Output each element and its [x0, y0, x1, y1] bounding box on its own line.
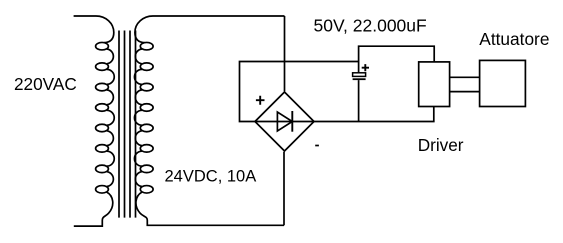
svg-text:24VDC, 10A: 24VDC, 10A: [165, 167, 257, 185]
transformer T1 secondary winding: [134, 16, 284, 225]
Attuatore box: [480, 60, 526, 106]
svg-text:220VAC: 220VAC: [14, 74, 77, 94]
transformer T1 core: [118, 31, 120, 218]
bridge rectifier D1 diamond: [255, 92, 314, 151]
capacitor C1 positive plate: [353, 73, 366, 77]
wire secondary bottom to bridge AC input: [283, 152, 285, 226]
plus sign at capacitor: [362, 64, 369, 71]
transformer T1 primary winding: [74, 16, 115, 226]
wire - output: through bridge (diode line) to Driver input -: [255, 107, 434, 122]
Driver box: [419, 62, 450, 107]
capacitor C1 top lead: [358, 62, 360, 73]
capacitor C1 negative plate: [353, 78, 366, 80]
wire + output: bridge left vertex, up, right to capacitor node: [240, 62, 359, 122]
plus sign at bridge + output: [256, 96, 265, 105]
svg-text:Driver: Driver: [418, 135, 464, 155]
svg-text:Attuatore: Attuatore: [479, 29, 549, 49]
capacitor C1 bottom lead: [358, 80, 360, 121]
diode cathode bar: [291, 111, 293, 132]
minus sign at bridge - output: [315, 145, 319, 147]
bus wire Driver to Attuatore lower: [450, 91, 480, 93]
svg-text:50V, 22.000uF: 50V, 22.000uF: [314, 15, 427, 35]
bus wire Driver to Attuatore upper: [450, 76, 480, 78]
wire capacitor node up and right to Driver input +: [359, 46, 435, 62]
diode inside bridge: [277, 112, 292, 131]
wire secondary top to bridge AC input: [284, 16, 286, 91]
